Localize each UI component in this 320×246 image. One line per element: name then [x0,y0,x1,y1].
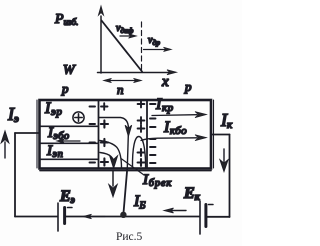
svg-text:p: p [61,81,69,96]
arrow I_kbo [141,138,197,141]
svg-text:x: x [161,74,169,90]
svg-text:p: p [184,79,192,94]
svg-text:Iк: Iк [220,110,233,131]
junction dot [120,212,126,218]
transistor box [40,100,212,169]
svg-text:n: n [117,82,124,97]
bottom wire [15,216,230,218]
I_brek leader line [121,159,144,176]
emitter junction line [98,101,100,169]
svg-text:Iэбо: Iэбо [47,125,70,142]
breakdown arch [132,137,145,169]
svg-text:Рис.5: Рис.5 [116,231,143,243]
minus signs left of emitter junction [90,107,96,163]
row divider 1 [40,125,98,127]
minus at E_k [209,204,214,206]
svg-text:Iэр: Iэр [44,100,63,118]
svg-text:Iэ: Iэ [7,104,19,125]
battery E_e long plate [57,203,59,231]
row divider 3 [40,158,98,160]
W width double arrow [107,80,138,82]
recombination crook curve [99,118,129,169]
diagonal concentration line [102,21,143,72]
I_B annotation arrow [112,171,114,186]
battery E_e short plate [63,208,66,224]
svg-text:vдиф: vдиф [116,23,134,35]
P axis [100,16,102,73]
plus signs left of collector junction [138,101,145,108]
emitter wire stub [15,132,39,134]
svg-text:Iкбо: Iкбо [163,119,187,137]
circled plus [73,112,84,123]
bottom left current arrow [89,216,105,218]
svg-text:vдр: vдр [148,35,160,47]
base flow curve 3 with arrow [100,153,114,164]
svg-text:Iкр: Iкр [155,96,174,114]
svg-text:Pизб.: Pизб. [54,12,78,27]
battery E_k short plate [204,205,207,227]
svg-text:Iэп: Iэп [46,143,63,160]
svg-text:Eк: Eк [183,185,201,203]
plus signs right of emitter junction [101,103,108,110]
I_k down arrow [223,149,225,162]
row divider 2 [40,142,98,144]
arrow under I_ebo [62,140,80,142]
svg-text:IБ: IБ [133,193,146,212]
battery E_k long plate [199,201,201,234]
arrow I_kr [152,114,197,117]
base lead [124,168,128,213]
dashed boundary line [141,22,143,71]
right wire [229,135,231,218]
svg-text:Eэ: Eэ [59,188,75,206]
collector junction line [146,101,148,169]
collector wire stub [212,134,230,136]
down arrowhead on crook [125,125,132,136]
svg-text:W: W [63,63,76,78]
arrow v_dr [144,49,167,51]
x axis [98,72,171,74]
svg-text:Iбрек: Iбрек [142,172,172,189]
bottom right current arrow [172,210,186,212]
base flow curve 2 [100,141,122,169]
I_e up arrow [4,142,6,158]
minus signs right of collector junction [150,104,156,163]
minus at E_e [68,207,73,209]
arrow v_dif [120,35,131,37]
left wire [14,133,16,217]
